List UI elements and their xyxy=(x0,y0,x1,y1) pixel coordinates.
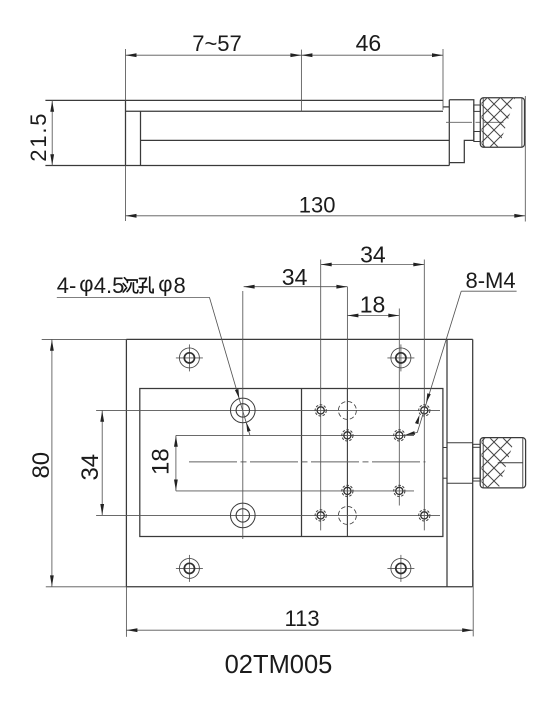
plan view: moving plate rectangle xyxy=(140,389,443,537)
label 4-phi4.5 counterbore phi8 xyxy=(57,272,186,299)
svg-text:02TM005: 02TM005 xyxy=(225,651,333,679)
M4 hole c4r1 xyxy=(419,405,430,416)
svg-text:8: 8 xyxy=(174,273,186,298)
corner hole top-left xyxy=(179,348,199,368)
svg-text:4-: 4- xyxy=(57,273,77,298)
svg-text:34: 34 xyxy=(360,242,386,268)
plan view: boss lines on end block xyxy=(443,443,473,484)
dim 130 xyxy=(126,96,526,222)
label underline + leader to counterbore xyxy=(57,298,250,436)
dim 18 left xyxy=(175,435,177,491)
dim 21.5 xyxy=(51,100,53,165)
top view: stage body outline xyxy=(45,100,449,165)
svg-text:34: 34 xyxy=(282,264,308,290)
hanzi chen (sink) xyxy=(123,278,138,293)
dim 34 top xyxy=(321,264,425,266)
svg-text:8-M4: 8-M4 xyxy=(466,268,516,293)
M4 hole c1r1 xyxy=(315,405,326,416)
plan view: knurled knob xyxy=(480,438,525,488)
dim 80 xyxy=(42,339,127,586)
svg-text:34: 34 xyxy=(77,454,104,481)
svg-text:φ: φ xyxy=(158,272,172,297)
svg-text:φ: φ xyxy=(79,272,93,297)
plan view: shaft to knob xyxy=(473,444,481,481)
dim 34 middle xyxy=(244,286,348,288)
top view: knurled knob xyxy=(480,98,524,148)
plan view: knob knurl hatch xyxy=(422,438,551,488)
svg-text:21.5: 21.5 xyxy=(26,112,51,162)
corner hole bottom-right xyxy=(391,558,411,578)
svg-text:113: 113 xyxy=(285,606,320,631)
M4 hole c1r4 xyxy=(315,510,326,521)
M4 hole c2r2 xyxy=(342,430,353,441)
hole row/column centerlines xyxy=(96,260,440,582)
corner hole bottom-left xyxy=(179,558,199,578)
dim 34 left xyxy=(101,410,103,515)
svg-text:4.5: 4.5 xyxy=(94,273,125,298)
dim 46 xyxy=(301,49,443,110)
svg-text:130: 130 xyxy=(299,192,336,217)
top view: leadscrew centerline xyxy=(446,121,504,123)
svg-text:7~57: 7~57 xyxy=(192,31,242,56)
svg-text:46: 46 xyxy=(356,30,382,56)
M4 hole c3r3 xyxy=(394,485,405,496)
top view: shaft stubs between block and knob xyxy=(474,105,481,142)
M4 hole c2r3 xyxy=(342,485,353,496)
counterbore hole lower xyxy=(231,503,256,528)
hidden holes (dashed circles) xyxy=(338,401,356,524)
svg-text:18: 18 xyxy=(360,292,386,318)
hanzi kong (hole) xyxy=(139,277,153,293)
plan view: plate line at c2 xyxy=(346,389,348,537)
dim 18 top xyxy=(347,315,399,317)
M4 hole c4r4 xyxy=(419,510,430,521)
corner hole top-right xyxy=(391,348,411,368)
dim 7~57 xyxy=(126,49,302,111)
M4 hole c3r2 xyxy=(394,430,405,441)
counterbore hole upper xyxy=(231,398,256,423)
8-M4 underline + leader xyxy=(406,291,516,435)
top view: knurl hatch xyxy=(423,98,551,147)
svg-text:18: 18 xyxy=(148,448,175,475)
plan view: base plate outline xyxy=(126,339,472,586)
dim 113 xyxy=(126,570,473,637)
svg-text:80: 80 xyxy=(28,452,55,479)
top view: right end block xyxy=(449,100,474,166)
plan view: main horizontal centerline xyxy=(189,461,426,463)
